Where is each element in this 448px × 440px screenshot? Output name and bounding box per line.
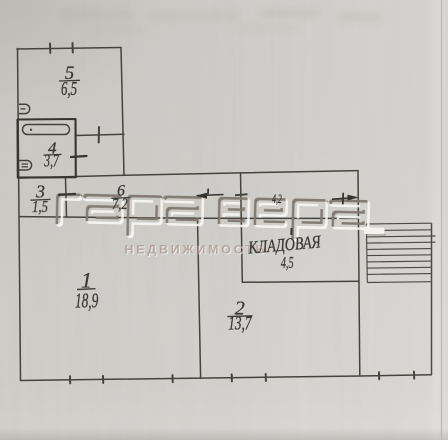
svg-text:18,9: 18,9 (75, 288, 98, 312)
svg-text:6,5: 6,5 (61, 77, 77, 99)
faint vertical crease top middle (233, 0, 235, 170)
watermark big "гаравера" embossed (square geometric letters) (59, 197, 366, 240)
room 5 label (59, 63, 80, 100)
tick bottom wall x103 (102, 376, 104, 383)
wire: storeroom left wall (241, 173, 243, 282)
toilet (19, 161, 32, 171)
small tick above КЛАДОВАЯ (290, 228, 292, 235)
wire: room 3 right wall (66, 178, 67, 217)
room 4 label (44, 138, 62, 171)
wm letter а (1) (86, 197, 121, 220)
svg-text:1,5: 1,5 (32, 199, 48, 217)
wire: storeroom bottom wall (242, 281, 358, 282)
tick bottom wall x379 (378, 372, 380, 379)
bathtub (23, 125, 70, 135)
room 2 label (227, 298, 252, 334)
tick bottom wall x414 (413, 372, 415, 379)
tick bottom wall x266 (265, 374, 267, 381)
tick on partition y135 (98, 127, 100, 143)
wire: outer right wall (358, 171, 360, 376)
wire: outer left wall (18, 49, 21, 381)
wire: wall between room 1 and room 2 (198, 218, 201, 378)
svg-text:7,2: 7,2 (112, 196, 127, 214)
svg-text:3,7: 3,7 (44, 153, 60, 172)
wire: bottom wall (21, 375, 432, 381)
room 6 label (111, 183, 129, 214)
bathroom 4 box (18, 119, 76, 178)
corner and edge shading (0, 0, 180, 120)
wm letter а (2) (166, 199, 201, 222)
wire: long wall y176 across plan (20, 171, 358, 178)
wire: top wall of room 5 (17, 48, 121, 50)
sink on left wall (19, 104, 30, 113)
tick bottom wall x232 (231, 374, 233, 381)
small tick above entry arrow (207, 189, 209, 193)
room 3 label (31, 182, 51, 217)
window tick on top wall (left) (49, 44, 51, 54)
wm letter р (2) (295, 202, 324, 239)
wm letter в (221, 201, 246, 224)
door dash on room 3 right wall (59, 194, 75, 195)
wm letter е (257, 201, 284, 224)
svg-text:4,5: 4,5 (281, 254, 294, 272)
window tick on top wall (right) (72, 43, 74, 53)
stairs flight (366, 223, 435, 375)
wire: wall and dimension line y218 (20, 217, 358, 219)
wm letter г (59, 197, 79, 224)
entry arrow (pointing left) (196, 193, 224, 199)
dimension text 4,2 (272, 193, 282, 206)
watermark underscore near stairs (364, 228, 386, 235)
wire: partition wall y135 between room 5 and corridor (76, 134, 125, 135)
faint bleed-through smudges top band (62, 9, 383, 33)
dimension arrow right (pointing right) (332, 193, 359, 205)
door dash on bathroom right wall (71, 156, 87, 157)
stairwell right wall (431, 223, 433, 375)
stairs left edge (365, 224, 368, 283)
paper fold line right edge (441, 0, 443, 440)
watermark НЕДВИЖИМОСТЬ (125, 242, 266, 257)
tick bottom wall x70 (69, 376, 71, 383)
storeroom area 4,5 (281, 254, 294, 272)
storeroom name (247, 233, 323, 258)
tick on storeroom left wall (235, 194, 248, 195)
room 1 label (75, 268, 98, 313)
wm letter а (3) (332, 203, 367, 226)
svg-text:4,2: 4,2 (272, 193, 282, 206)
wire: right wall of top-left section (121, 48, 124, 176)
tick bottom wall x172 (172, 375, 174, 382)
wm letter р (1) (130, 199, 159, 236)
svg-text:13,7: 13,7 (228, 312, 252, 334)
